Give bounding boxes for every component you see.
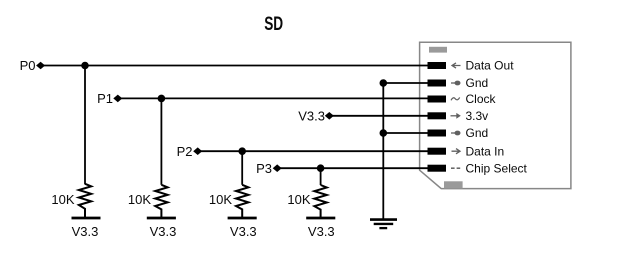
pin 1 icon (out arrow) — [452, 63, 461, 68]
wire P3 to Chip Select pin — [279, 167, 429, 169]
pin 6 icon (in arrow) — [452, 149, 461, 154]
junction Gnd top — [380, 79, 388, 87]
connector top gray pad — [429, 47, 447, 53]
SD card connector U1 body — [420, 42, 571, 188]
svg-text:V3.3: V3.3 — [150, 224, 177, 239]
pin 2 pad (Gnd) — [428, 80, 447, 87]
V3.3 terminal bar R4 — [306, 217, 335, 220]
pin 7 pad (Chip Select) — [428, 165, 447, 172]
pin 4 pad (3.3v) — [428, 112, 447, 119]
wire Gnd top to pin 2 — [383, 82, 428, 84]
pin 6 pad (Data In) — [428, 148, 447, 155]
svg-text:10K: 10K — [51, 192, 74, 207]
svg-text:V3.3: V3.3 — [72, 224, 99, 239]
wire P1 junction down to R2 — [160, 98, 162, 184]
pin 2 icon — [451, 81, 461, 86]
node V3.3 terminal diamond — [325, 112, 334, 120]
wire V3.3 to 3.3v pin — [331, 115, 428, 117]
wire Gnd pins vertical bus — [382, 83, 384, 219]
svg-text:P2: P2 — [177, 144, 193, 159]
svg-text:V3.3: V3.3 — [230, 224, 257, 239]
svg-text:10K: 10K — [287, 192, 310, 207]
svg-text:Gnd: Gnd — [466, 76, 489, 90]
wire P0 junction down to R1 — [84, 66, 86, 185]
wire P2 junction down to R3 — [241, 151, 243, 185]
svg-text:Clock: Clock — [466, 92, 497, 106]
wire P2 to Data In pin — [199, 150, 428, 152]
svg-text:V3.3: V3.3 — [308, 224, 335, 239]
svg-text:P0: P0 — [20, 58, 36, 73]
V3.3 terminal bar R1 — [72, 217, 101, 220]
ground symbol — [370, 220, 397, 229]
svg-text:SD: SD — [264, 13, 283, 35]
node P2 terminal diamond — [193, 147, 202, 155]
wire P0 to Data Out pin — [42, 65, 428, 67]
connector bottom gray pad — [444, 181, 463, 188]
pin 3 pad (Clock) — [428, 96, 447, 103]
svg-text:Gnd: Gnd — [466, 126, 489, 140]
node P3 terminal diamond — [273, 164, 282, 172]
node P0 terminal diamond — [36, 62, 45, 70]
node P1 terminal diamond — [113, 95, 122, 103]
svg-text:Data In: Data In — [466, 144, 505, 158]
V3.3 terminal bar R3 — [228, 217, 257, 220]
svg-text:3.3v: 3.3v — [466, 109, 489, 123]
resistor R2 10K — [155, 185, 167, 217]
junction Gnd bottom — [380, 129, 388, 137]
pin 4 icon (power arrow) — [451, 113, 461, 119]
svg-text:Chip Select: Chip Select — [466, 161, 528, 175]
resistor R4 10K — [314, 185, 326, 217]
pin 5 icon — [451, 131, 461, 136]
junction P1 / R2 — [158, 95, 166, 103]
pin 3 icon (clock wave) — [451, 97, 460, 100]
pin 5 pad (Gnd) — [428, 130, 447, 137]
svg-text:Data Out: Data Out — [466, 59, 515, 73]
wire P3 junction down to R4 — [320, 168, 322, 185]
resistor R3 10K — [236, 185, 248, 217]
wire Gnd bottom to pin 5 — [383, 132, 428, 134]
wire P1 to Clock pin — [119, 97, 428, 99]
junction P2 / R3 — [238, 147, 246, 155]
junction P3 / R4 — [317, 164, 325, 172]
resistor R1 10K — [79, 184, 91, 217]
svg-text:P3: P3 — [256, 161, 272, 176]
svg-text:10K: 10K — [209, 192, 232, 207]
svg-text:P1: P1 — [97, 91, 113, 106]
pin 1 pad (Data Out) — [428, 62, 447, 69]
pin 7 icon (dashes) — [451, 167, 460, 169]
V3.3 terminal bar R2 — [147, 217, 176, 220]
junction P0 / R1 — [81, 62, 89, 70]
svg-text:10K: 10K — [128, 192, 151, 207]
svg-text:V3.3: V3.3 — [298, 108, 325, 123]
